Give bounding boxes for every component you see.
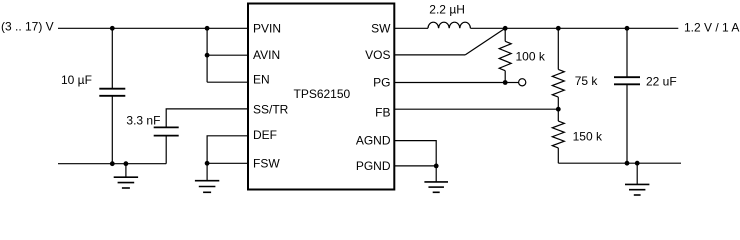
svg-text:(3 .. 17) V: (3 .. 17) V [1, 19, 54, 33]
resistor R2 75 k [552, 28, 564, 109]
junction VIN / C1 [110, 26, 115, 31]
wire PG [394, 82, 505, 84]
junction VOUT / C3 [625, 26, 630, 31]
junction FB / R2 / R3 [556, 107, 561, 112]
ground AGND/PGND [424, 166, 448, 192]
wire SW to inductor [394, 27, 428, 29]
junction VOUT / R2 [556, 26, 561, 31]
wire SS/TR [166, 109, 247, 128]
junction SW node / R1 [503, 26, 508, 31]
wire C3 top lead [626, 28, 628, 77]
wire C1 bottom lead [111, 96, 113, 164]
capacitor C1 10uF [99, 89, 125, 96]
wire VOS diagonal [465, 28, 505, 55]
svg-text:FSW: FSW [253, 157, 280, 171]
wire EN [207, 81, 247, 83]
junction PG / R1 [503, 80, 508, 85]
wire VOUT output [627, 27, 678, 29]
svg-text:3.3 nF: 3.3 nF [126, 114, 160, 128]
wire PGND [394, 165, 436, 167]
svg-text:TPS62150: TPS62150 [294, 87, 351, 101]
ground output rail [625, 163, 649, 195]
wire PG stub [505, 82, 518, 84]
wire AGND branch [394, 141, 436, 166]
svg-text:EN: EN [253, 73, 270, 87]
wire output ground rail [558, 162, 681, 164]
wire FB [394, 108, 558, 110]
wire AVIN [207, 54, 247, 56]
wire DEF branch [207, 136, 247, 164]
svg-text:SW: SW [371, 21, 391, 35]
wire VOS [394, 54, 465, 56]
svg-text:DEF: DEF [253, 128, 277, 142]
wire left ground rail [58, 163, 166, 165]
capacitor C2 3.3nF [154, 127, 179, 135]
wire inductor to VOUT node [470, 27, 505, 29]
svg-text:VOS: VOS [365, 48, 390, 62]
wire C2 bottom lead [165, 136, 167, 164]
wire VIN input rail [58, 27, 247, 29]
svg-text:SS/TR: SS/TR [253, 103, 289, 117]
svg-text:75 k: 75 k [575, 74, 599, 88]
junction C1 / ground rail [110, 161, 115, 166]
wire FSW [207, 162, 247, 164]
junction C3 / ground rail [625, 161, 630, 166]
junction AVIN [205, 53, 210, 58]
junction DEF / FSW [205, 161, 210, 166]
junction ground stem [124, 161, 129, 166]
svg-text:1.2 V / 1 A: 1.2 V / 1 A [684, 20, 739, 34]
capacitor C3 22 uF [614, 77, 640, 84]
svg-text:PG: PG [373, 75, 390, 89]
wire VIN branch vertical [206, 28, 208, 82]
IC U1 TPS62150 body [248, 4, 394, 190]
junction AGND / PGND [434, 164, 439, 169]
inductor L1 2.2uH [428, 22, 470, 28]
resistor R1 100 k [499, 28, 511, 82]
svg-text:PVIN: PVIN [253, 22, 281, 36]
svg-text:100 k: 100 k [516, 50, 546, 64]
svg-text:22 uF: 22 uF [646, 74, 677, 88]
svg-text:AGND: AGND [356, 134, 391, 148]
wire VOUT node to C3 node [558, 27, 627, 29]
svg-text:150 k: 150 k [573, 130, 603, 144]
svg-text:FB: FB [375, 106, 390, 120]
ground DEF/FSW [195, 163, 219, 192]
svg-text:PGND: PGND [356, 159, 391, 173]
terminal PG open circle [519, 79, 526, 86]
wire C1 top lead [111, 28, 113, 88]
junction ground stem right [635, 161, 640, 166]
wire C3 bottom lead [626, 84, 628, 163]
svg-text:AVIN: AVIN [253, 48, 280, 62]
svg-text:10 µF: 10 µF [61, 73, 92, 87]
ground input rail [114, 164, 138, 188]
wire VOUT node to R2 node [505, 27, 558, 29]
svg-text:2.2 µH: 2.2 µH [429, 2, 465, 16]
junction VIN / AVIN branch [205, 26, 210, 31]
resistor R3 150 k [552, 109, 564, 163]
